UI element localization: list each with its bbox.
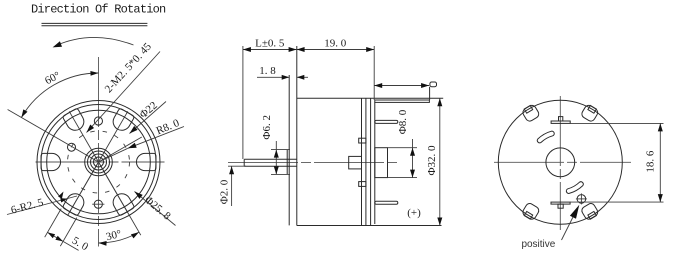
dimension 5.0 slot width	[45, 209, 91, 254]
svg-text:Φ8. 0: Φ8. 0	[397, 109, 409, 134]
svg-text:1. 8: 1. 8	[259, 65, 276, 77]
dimension 30 degrees	[99, 228, 140, 246]
svg-text:19. 0: 19. 0	[324, 38, 347, 50]
svg-text:Φ2. 0: Φ2. 0	[219, 179, 231, 204]
rear joint rings	[366, 98, 375, 225]
dimension phi2.0	[219, 166, 247, 206]
rear view center hole	[546, 148, 575, 177]
positive terminal mark	[576, 193, 587, 204]
left view R8 boss circle	[68, 131, 130, 193]
dimension phi32.0	[426, 98, 442, 225]
dimension 18.6	[570, 123, 663, 202]
shaft phi2	[244, 159, 297, 166]
terminal length dimension	[374, 83, 429, 88]
svg-text:R8. 0: R8. 0	[155, 117, 182, 137]
rotation direction arc arrow	[53, 37, 134, 47]
dimension phi6.2	[261, 115, 290, 174]
front mounting plate	[288, 75, 290, 225]
svg-text:Φ6. 2: Φ6. 2	[261, 115, 273, 140]
left view small hole on 60deg radial	[68, 143, 76, 151]
dimension phi8.0	[388, 109, 418, 177]
left view 60 degree radial right	[99, 137, 142, 162]
rear view outer circle	[498, 100, 622, 224]
svg-text:18. 6: 18. 6	[645, 150, 657, 173]
svg-text:Φ32. 0: Φ32. 0	[426, 145, 438, 176]
plus terminal mark	[407, 207, 421, 219]
rear bearing boss phi8	[375, 148, 388, 178]
phi6.2 boss face	[286, 150, 288, 175]
leader R8.0	[99, 117, 185, 162]
left view top screw hole M2.5	[94, 117, 102, 125]
leader phi25.8	[135, 192, 176, 226]
leader 2-M2.5x0.45	[87, 40, 161, 132]
svg-text:60°: 60°	[43, 69, 62, 87]
rear bottom terminal tab	[551, 202, 570, 208]
svg-text:30°: 30°	[105, 228, 123, 243]
left view bottom screw hole M2.5	[92, 200, 104, 208]
solder lug	[430, 82, 437, 87]
left view hub circles	[85, 148, 113, 176]
svg-text:Direction Of Rotation: Direction Of Rotation	[31, 3, 166, 17]
svg-text:(+): (+)	[407, 207, 421, 219]
left view radial lines to slots	[68, 111, 141, 235]
svg-text:positive: positive	[521, 239, 555, 250]
leader 6-R2.5	[7, 192, 77, 217]
svg-text:L±0. 5: L±0. 5	[255, 38, 285, 50]
svg-text:5. 0: 5. 0	[70, 235, 91, 254]
terminal strips	[375, 120, 398, 204]
left view 60 degree radial	[8, 110, 99, 163]
top solder strap	[375, 87, 430, 103]
direction of rotation note	[31, 3, 166, 26]
latch tabs	[359, 138, 366, 186]
motor body	[297, 46, 443, 226]
dimension 60 degrees	[21, 69, 98, 117]
left view motor outline circles	[37, 101, 160, 224]
rear brush caps	[521, 104, 599, 221]
svg-text:Φ25. 8: Φ25. 8	[142, 194, 173, 223]
rear view center lines	[494, 96, 631, 230]
leader phi22	[130, 99, 167, 133]
dimension 1.8	[257, 65, 308, 80]
left view 6 mounting slots 6-R2.5	[41, 108, 156, 216]
middle view center line	[228, 161, 400, 163]
svg-text:2-M2. 5*0. 45: 2-M2. 5*0. 45	[103, 40, 155, 95]
bearing recess	[349, 156, 362, 169]
rear top terminal tab	[551, 117, 570, 124]
rear vent slots	[537, 131, 583, 193]
left view center lines	[36, 57, 165, 247]
svg-text:6-R2. 5: 6-R2. 5	[10, 196, 45, 216]
positive leader	[521, 205, 579, 250]
dimension chain L, 19.0	[243, 38, 374, 159]
